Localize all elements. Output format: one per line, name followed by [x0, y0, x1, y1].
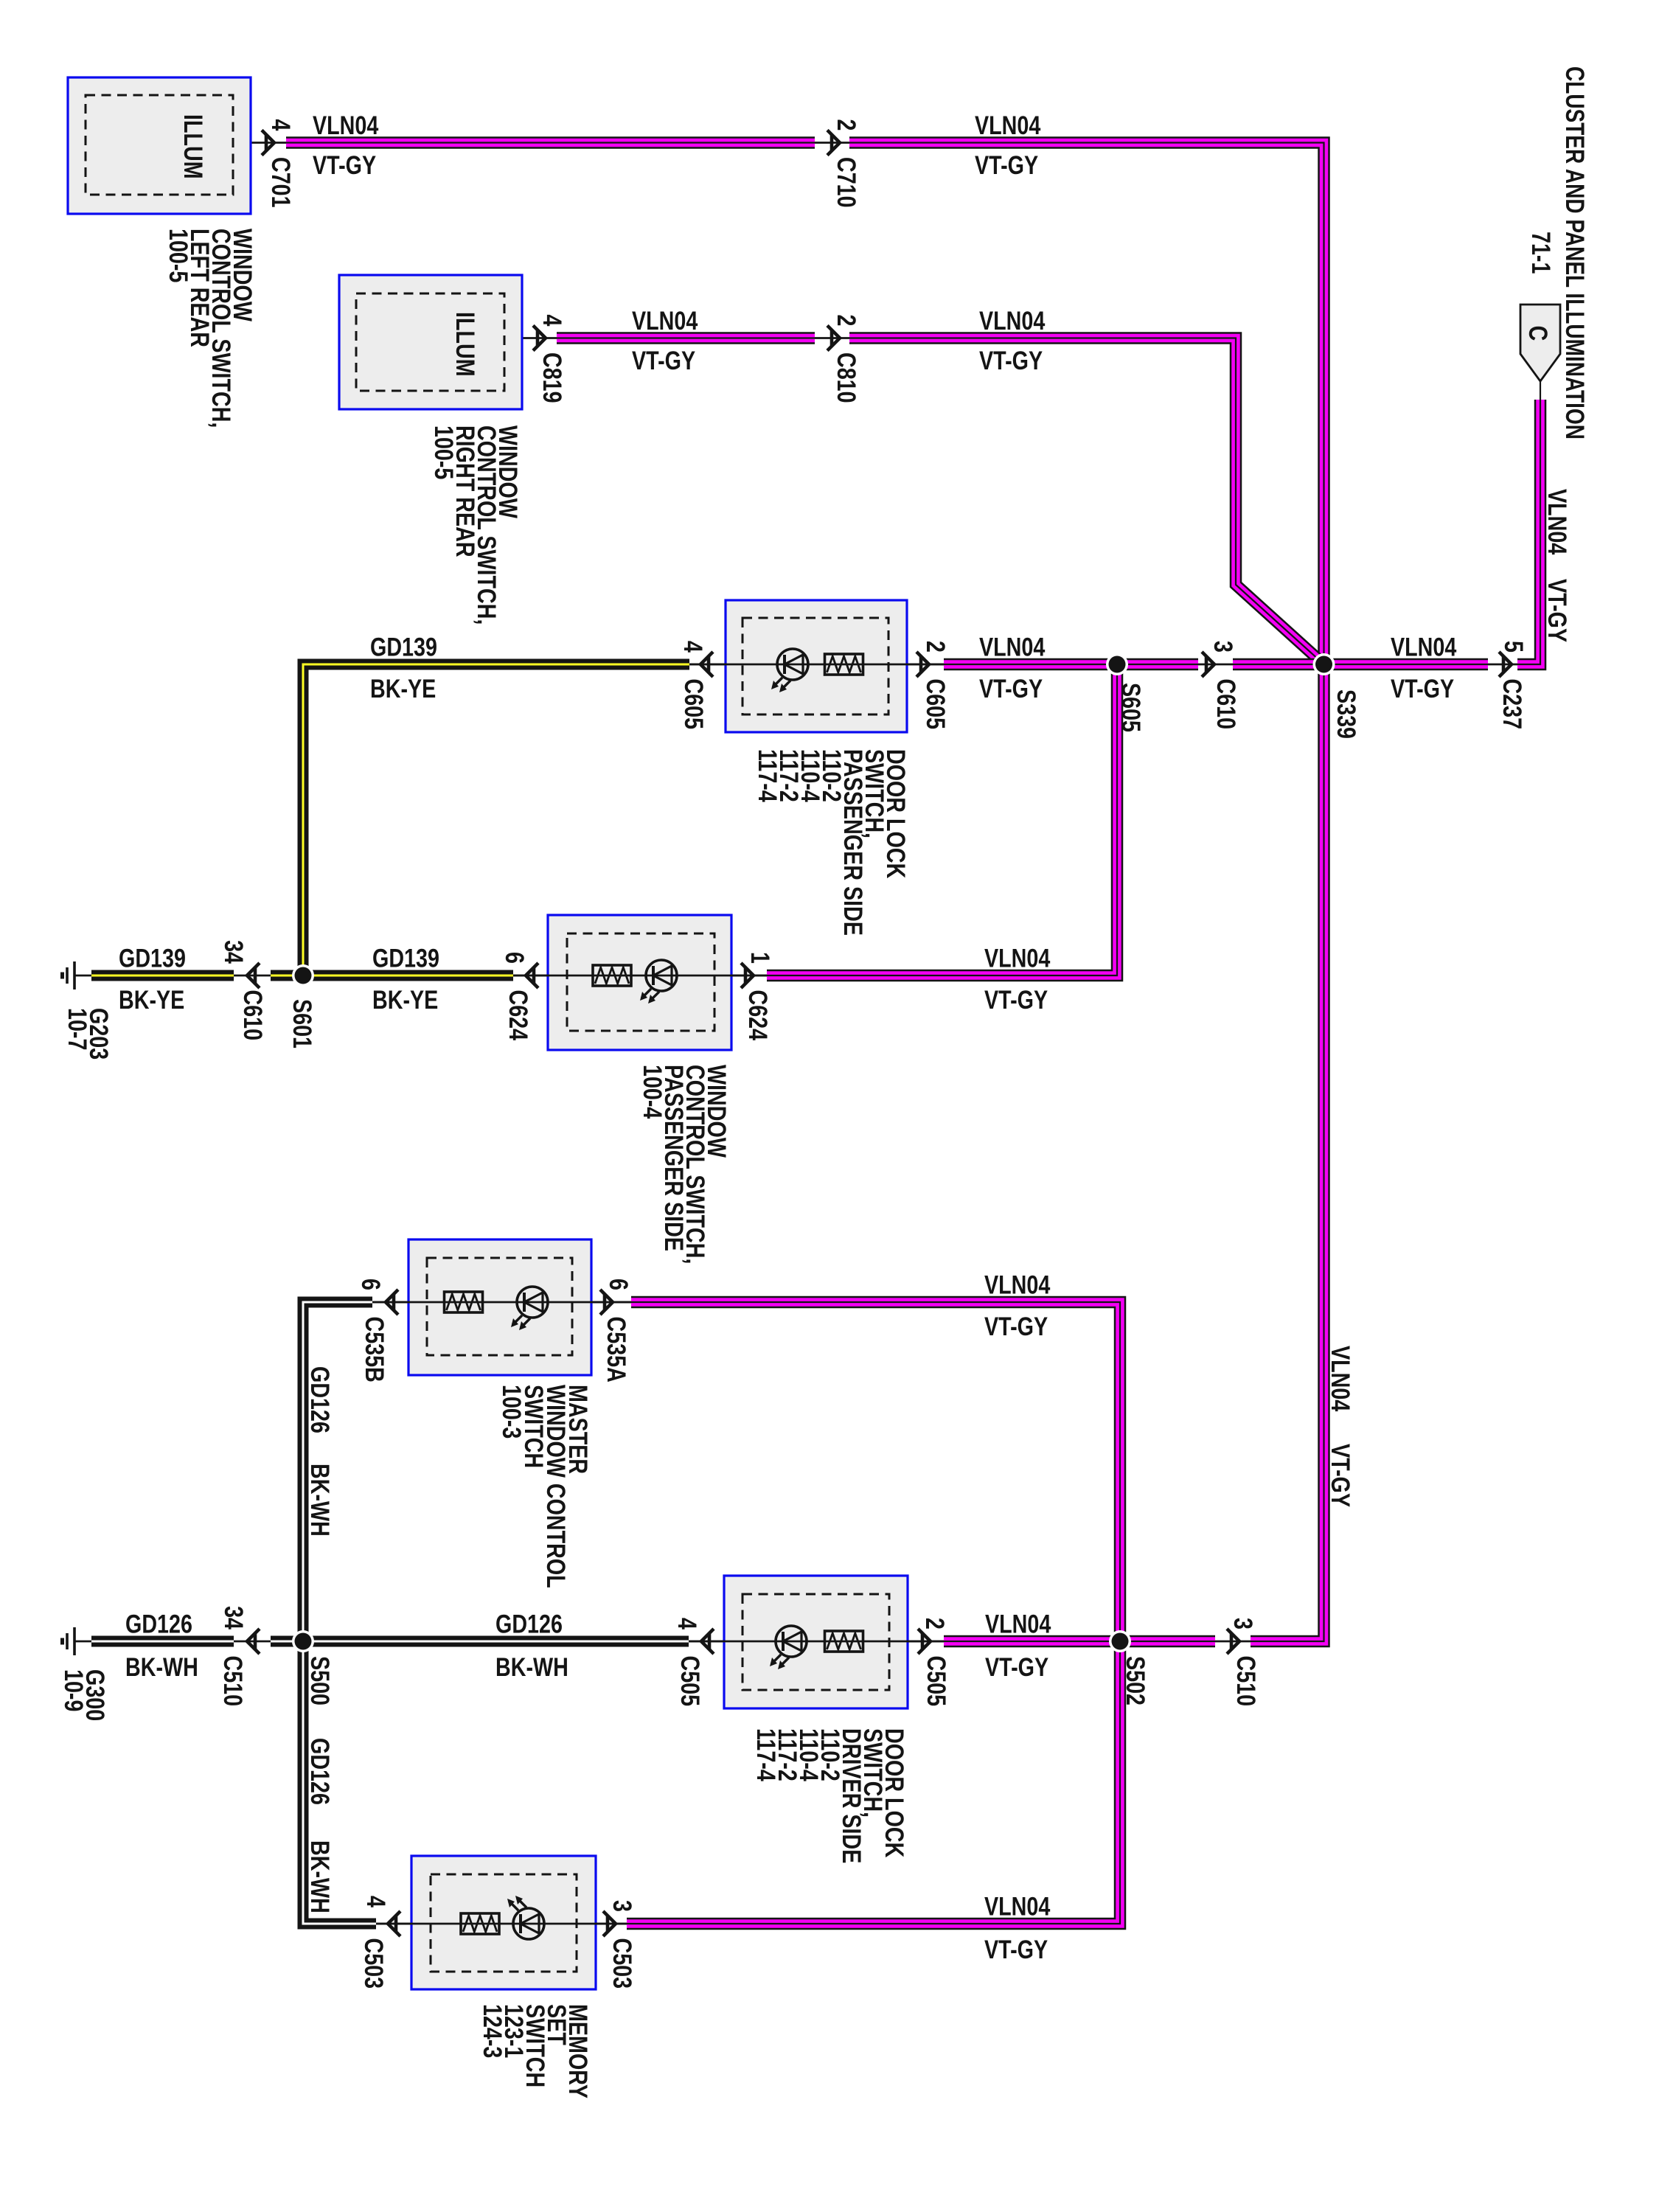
svg-text:VLN04: VLN04 — [984, 1892, 1050, 1921]
svg-text:C503: C503 — [359, 1938, 388, 1989]
svg-text:S502: S502 — [1121, 1656, 1150, 1705]
svg-text:C510: C510 — [218, 1656, 247, 1707]
svg-text:VLN04: VLN04 — [313, 111, 378, 139]
svg-text:S500: S500 — [305, 1656, 334, 1705]
svg-text:VLN04: VLN04 — [1543, 489, 1571, 554]
svg-text:VLN04: VLN04 — [1326, 1346, 1354, 1411]
svg-text:C: C — [1523, 326, 1552, 341]
svg-text:2: 2 — [921, 641, 950, 653]
svg-text:S605: S605 — [1116, 683, 1145, 732]
svg-text:C505: C505 — [675, 1656, 704, 1707]
svg-text:BK-WH: BK-WH — [125, 1652, 198, 1681]
svg-text:VLN04: VLN04 — [984, 1270, 1050, 1299]
svg-text:6: 6 — [356, 1279, 385, 1290]
svg-text:C624: C624 — [504, 990, 532, 1041]
svg-text:VT-GY: VT-GY — [632, 346, 695, 375]
svg-text:GD126: GD126 — [125, 1610, 192, 1638]
svg-text:VT-GY: VT-GY — [984, 1312, 1048, 1340]
svg-text:C605: C605 — [921, 679, 950, 730]
svg-text:VLN04: VLN04 — [985, 1610, 1051, 1638]
svg-text:C810: C810 — [832, 352, 860, 403]
svg-text:VLN04: VLN04 — [984, 944, 1050, 973]
svg-text:VT-GY: VT-GY — [984, 1935, 1048, 1964]
svg-text:5: 5 — [1499, 641, 1528, 653]
svg-text:GD126: GD126 — [495, 1610, 563, 1638]
svg-text:C610: C610 — [238, 990, 267, 1041]
svg-text:VT-GY: VT-GY — [313, 150, 376, 179]
svg-text:3: 3 — [608, 1900, 636, 1912]
svg-text:2: 2 — [920, 1618, 949, 1630]
svg-text:VT-GY: VT-GY — [975, 150, 1038, 179]
svg-text:4: 4 — [538, 315, 566, 327]
svg-text:C237: C237 — [1498, 679, 1526, 730]
svg-text:BK-YE: BK-YE — [370, 674, 436, 703]
svg-text:VT-GY: VT-GY — [984, 985, 1048, 1014]
svg-text:C605: C605 — [679, 679, 708, 730]
svg-text:34: 34 — [219, 1606, 248, 1630]
svg-text:10-7: 10-7 — [63, 1008, 91, 1050]
svg-text:4: 4 — [678, 641, 707, 653]
svg-text:117-4: 117-4 — [751, 1728, 780, 1781]
svg-text:VLN04: VLN04 — [979, 306, 1045, 335]
svg-text:BK-WH: BK-WH — [305, 1840, 334, 1913]
svg-text:BK-YE: BK-YE — [372, 985, 438, 1014]
svg-text:BK-WH: BK-WH — [305, 1464, 334, 1537]
svg-text:C503: C503 — [608, 1938, 636, 1989]
svg-text:C701: C701 — [266, 157, 295, 208]
svg-text:VT-GY: VT-GY — [985, 1652, 1048, 1681]
svg-text:CLUSTER AND PANEL ILLUMINATION: CLUSTER AND PANEL ILLUMINATION — [1560, 66, 1590, 439]
svg-text:ILLUM: ILLUM — [178, 114, 207, 179]
svg-text:VLN04: VLN04 — [632, 306, 698, 335]
svg-text:2: 2 — [832, 315, 860, 327]
svg-text:VT-GY: VT-GY — [1326, 1444, 1354, 1507]
svg-text:S339: S339 — [1332, 689, 1360, 739]
svg-text:VT-GY: VT-GY — [979, 346, 1043, 375]
svg-text:VLN04: VLN04 — [975, 111, 1040, 139]
svg-text:4: 4 — [361, 1896, 390, 1907]
svg-text:C510: C510 — [1231, 1656, 1260, 1707]
svg-text:10-9: 10-9 — [59, 1669, 88, 1711]
svg-text:ILLUM: ILLUM — [451, 312, 479, 377]
svg-text:VLN04: VLN04 — [979, 633, 1045, 661]
svg-text:BK-WH: BK-WH — [495, 1652, 568, 1681]
svg-text:GD126: GD126 — [305, 1738, 334, 1805]
svg-text:VLN04: VLN04 — [1391, 633, 1456, 661]
svg-text:100-4: 100-4 — [638, 1065, 667, 1119]
svg-text:GD139: GD139 — [372, 944, 439, 973]
svg-text:100-3: 100-3 — [497, 1385, 526, 1439]
svg-text:34: 34 — [219, 940, 248, 964]
svg-text:C505: C505 — [922, 1656, 950, 1707]
svg-text:GD126: GD126 — [305, 1366, 334, 1433]
svg-text:VT-GY: VT-GY — [979, 674, 1043, 703]
svg-text:BK-YE: BK-YE — [119, 985, 184, 1014]
svg-text:4: 4 — [266, 119, 295, 131]
svg-text:100-5: 100-5 — [164, 229, 192, 282]
svg-text:GD139: GD139 — [119, 944, 186, 973]
svg-text:C610: C610 — [1211, 679, 1240, 730]
svg-text:C819: C819 — [538, 352, 566, 403]
svg-text:2: 2 — [832, 119, 860, 131]
svg-text:6: 6 — [500, 952, 529, 964]
svg-text:GD139: GD139 — [370, 633, 437, 661]
svg-text:3: 3 — [1208, 641, 1237, 653]
svg-text:1: 1 — [745, 952, 774, 964]
svg-text:71-1: 71-1 — [1526, 232, 1555, 274]
svg-text:4: 4 — [672, 1618, 701, 1630]
svg-text:C535A: C535A — [602, 1317, 630, 1382]
svg-text:VT-GY: VT-GY — [1543, 579, 1571, 642]
svg-text:124-3: 124-3 — [478, 2004, 507, 2058]
svg-text:C535B: C535B — [360, 1317, 389, 1382]
svg-text:S601: S601 — [288, 999, 316, 1048]
svg-text:C710: C710 — [832, 157, 860, 208]
svg-text:117-4: 117-4 — [753, 749, 782, 802]
svg-text:3: 3 — [1228, 1618, 1257, 1630]
svg-text:100-5: 100-5 — [429, 425, 458, 479]
svg-text:VT-GY: VT-GY — [1391, 674, 1454, 703]
svg-text:C624: C624 — [743, 990, 772, 1041]
svg-text:6: 6 — [604, 1279, 633, 1290]
